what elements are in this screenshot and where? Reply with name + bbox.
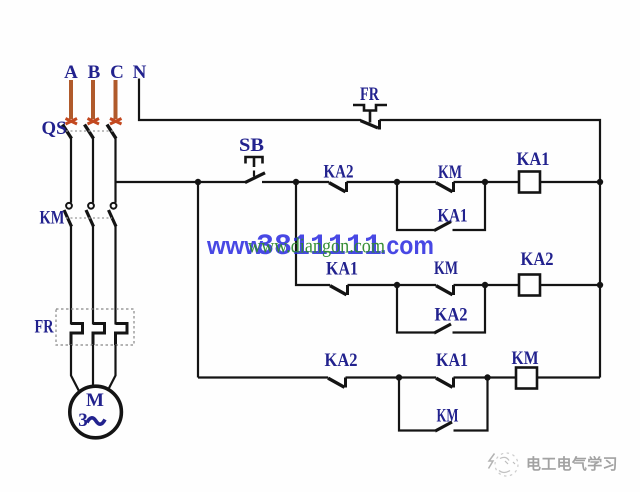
wire FR2 to motor [92,345,94,387]
rung1 wire SB to KA2 contact [262,181,329,183]
svg-text:KM: KM [437,406,459,427]
contactor aux contact KM (branch of rung3) [435,422,452,431]
rung3 wire KA2 to KA1 contact [346,376,437,378]
svg-text:FR: FR [35,317,54,338]
svg-text:QS: QS [42,118,67,139]
svg-text:KA2: KA2 [324,162,354,183]
node rung1 right rail [597,179,603,185]
rung1 wire KA2 to KM contact [347,181,437,183]
left rail wire down to rung 3 [197,182,199,378]
node rung3 branch left [396,374,402,380]
branch2 wire and frame [397,285,434,333]
phase input line A (orange) [69,80,73,119]
disconnect switch QS pole 2 blade [85,125,94,139]
wire FR3 to motor [108,345,116,391]
relay contact KA1 (rung3) [436,378,454,388]
svg-text:C: C [110,62,124,83]
FR dashed enclosure box [56,309,134,345]
svg-text:3: 3 [78,410,88,431]
thermal overload FR heater element 1 [71,324,83,346]
svg-text:www.diangon.com: www.diangon.com [248,234,385,258]
terminal X mark phase C [110,119,122,125]
terminal X mark phase B [88,119,100,125]
rung2 wire KA1 to KM contact [348,284,437,286]
svg-text:SB: SB [239,135,264,156]
wire QS pole2 to KM contact2 [92,138,94,203]
rung2 feeder wire down and to KA1 contact [296,182,330,285]
rung1 wire KM to coil KA1 [454,181,520,183]
top wire FR contact to right rail, rail down to rung3 [380,120,601,378]
pushbutton SB NC blade [245,173,265,183]
rung2 wire coil KA2 to right rail [540,284,600,286]
relay contact KA2 (rung3) [328,378,346,388]
pushbutton SB cap and stem [246,157,263,164]
node rung2 feeder tap [293,179,299,185]
footer logo circle [495,453,518,476]
branch2 right wire up to rung2 [453,285,486,333]
wire KM2 to FR heater2 [92,226,94,325]
svg-text:KM: KM [40,208,65,229]
thermal overload FR heater element 3 [116,324,128,346]
svg-text:N: N [133,62,147,83]
svg-text:KA1: KA1 [436,350,468,371]
control tap wire from phase C to SB [116,181,247,183]
branch1 right wire up to rung1 [453,182,486,230]
rung3 wire left rail to KA2 contact [198,376,328,378]
motor M circle [70,386,122,438]
svg-text:KA1: KA1 [438,206,468,227]
node left rail tap [195,179,201,185]
contactor KM main contact 1 [64,203,72,227]
thermal overload FR heater element 2 [93,324,105,346]
svg-text:KA2: KA2 [435,305,468,326]
wire N vertical and top horizontal to FR contact [139,79,361,121]
phase input line C (orange) [114,80,118,119]
coil KM [516,368,537,389]
wire QS pole3 to KM contact3 [114,138,116,203]
node rung1 branch left [394,179,400,185]
wire KM3 to FR heater3 [114,226,116,325]
svg-text:KM: KM [512,348,539,369]
rung3 wire KA1 to coil KM [454,376,517,378]
relay contact KA2 (rung1) [329,182,347,192]
node rung2 right rail [597,282,603,288]
rung2 wire KM to coil KA2 [454,284,520,286]
rung3 wire coil KM to right rail [537,376,600,378]
wire QS pole1 to KM contact1 [70,138,72,203]
wire KM1 to FR heater1 [70,226,72,325]
svg-text:KA2: KA2 [325,350,358,371]
node rung2 branch right [482,282,488,288]
terminal X mark phase A [66,119,78,125]
disconnect switch QS pole 3 blade [107,125,116,139]
node rung3 branch right [484,374,490,380]
footer logo lightning mark [489,454,495,469]
branch1 wire and frame [397,182,434,230]
svg-text:KA2: KA2 [521,249,554,270]
svg-text:KM: KM [434,258,458,279]
motor tilde (3~) symbol [87,418,105,424]
QS interlink dotted line [66,130,113,132]
wire FR1 to motor [71,345,80,392]
contactor KM main contact 3 [109,203,117,227]
coil KA1 [519,172,540,193]
thermal relay FR NC contact (top) [353,105,387,130]
node rung2 branch left [394,282,400,288]
branch3 wire and frame [399,378,435,431]
contactor KM main contact 2 [86,203,94,227]
relay contact KA2 (branch of rung2) [434,324,451,333]
coil KA2 [519,275,540,296]
svg-text:M: M [86,390,104,411]
relay contact KA1 (rung2) [330,285,348,295]
svg-text:电工电气学习: 电工电气学习 [526,455,618,473]
KM interlink dotted line [66,217,112,219]
svg-text:B: B [88,62,101,83]
svg-text:A: A [64,62,78,83]
svg-text:FR: FR [360,84,379,105]
contactor aux contact KM (rung2) [436,285,454,295]
disconnect switch QS pole 1 blade [63,125,72,139]
rung1 wire coil KA1 to right rail [540,181,600,183]
node rung1 branch right [482,179,488,185]
branch3 right wire up to rung3 [454,378,488,431]
svg-text:KA1: KA1 [517,149,550,170]
relay contact KA1 (branch of rung1) [434,222,451,231]
svg-text:KM: KM [438,162,462,183]
phase input line B (orange) [91,80,95,119]
contactor aux contact KM (rung1) [436,182,454,192]
